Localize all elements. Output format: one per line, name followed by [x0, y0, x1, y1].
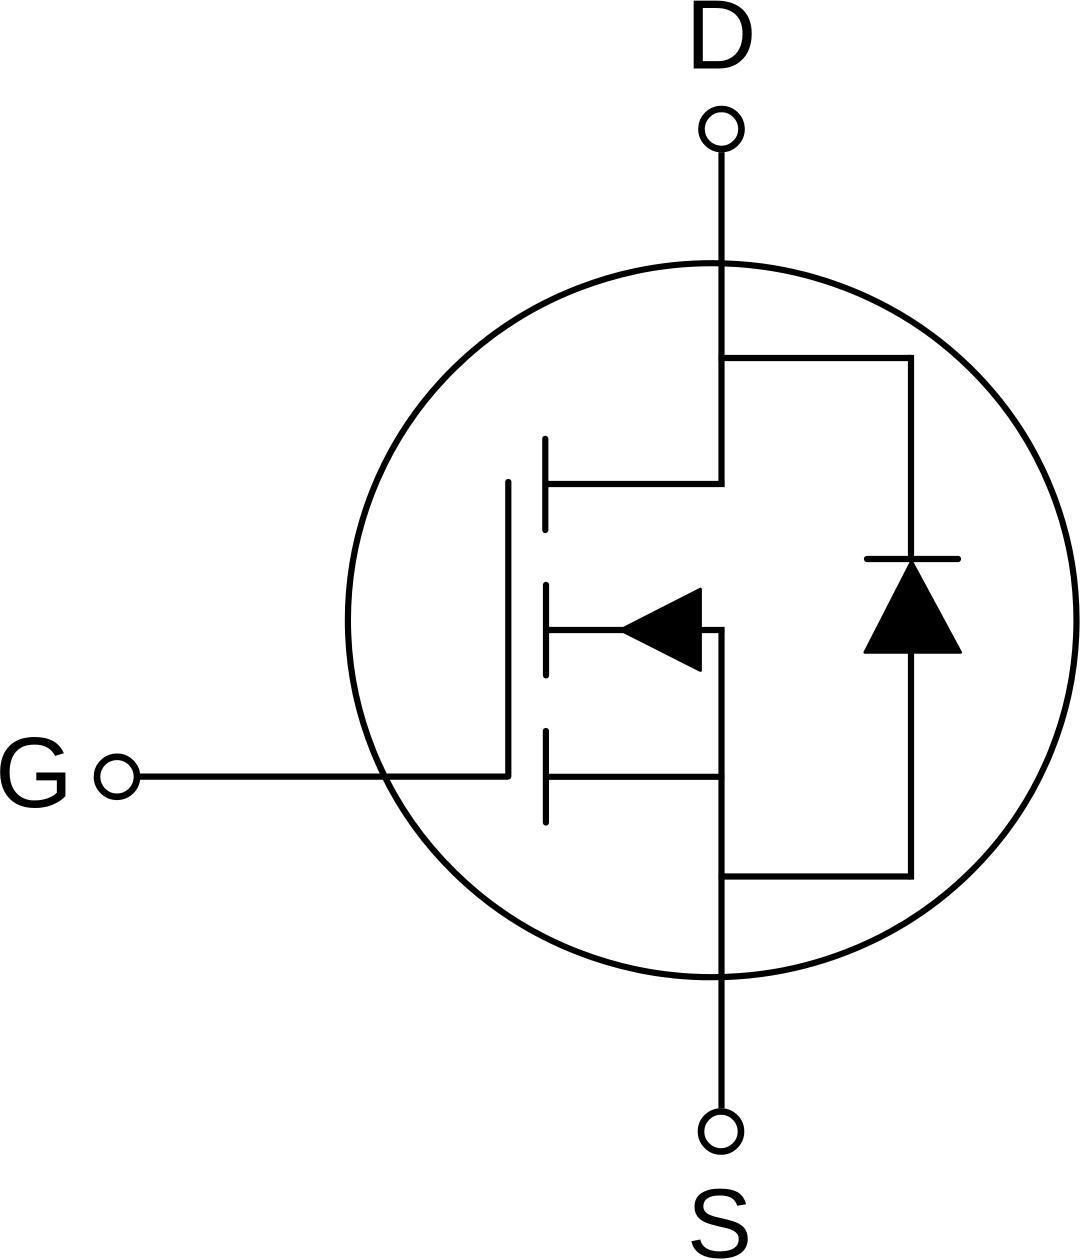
terminal S circle [701, 1112, 741, 1152]
transistor Q1 gate plate [505, 482, 511, 776]
node S label [687, 1169, 752, 1260]
transistor Q1 channel segment (source dash) [543, 731, 549, 823]
terminal D circle [702, 109, 742, 149]
transistor Q1 channel segment (drain dash) [542, 439, 548, 530]
node D label [686, 0, 757, 89]
wire gate lead (terminal G to gate plate) [140, 773, 508, 779]
svg-text:S: S [687, 1169, 752, 1260]
wire diode anode lead [908, 652, 914, 880]
terminal G circle [97, 757, 137, 797]
wire diode branch bottom (anode to source vertical) [718, 873, 911, 879]
transistor Q1 body arrow (points to channel) [621, 589, 701, 670]
transistor U1 envelope circle [348, 263, 1077, 977]
transistor Q1 channel segment (body dash) [543, 585, 549, 676]
diode D1 anode triangle [865, 562, 961, 653]
wire source horizontal (channel to source vertical) [546, 774, 725, 780]
wire diode cathode lead [908, 355, 914, 561]
wire drain horizontal (channel to drain lead) [545, 481, 724, 487]
diode D1 cathode bar [867, 556, 958, 562]
node G label [0, 717, 73, 829]
svg-text:D: D [686, 0, 757, 89]
wire drain lead (terminal D to drain bar) [718, 152, 724, 487]
wire source vertical (body node down to terminal S) [718, 630, 724, 1108]
wire diode branch top (drain lead to diode cathode) [718, 355, 911, 361]
svg-text:G: G [0, 717, 73, 829]
wire body connection (channel to body arrow) [546, 627, 725, 633]
